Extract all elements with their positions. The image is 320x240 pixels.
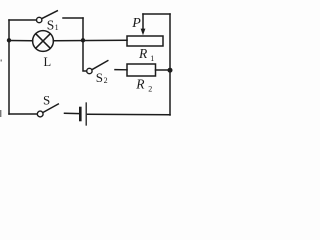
lamp L cross — [36, 34, 51, 49]
label S1 — [47, 18, 59, 33]
node junction dot (83,40) — [81, 38, 85, 42]
switch S blade — [43, 104, 58, 113]
wire top-left horizontal (S1 branch) — [9, 19, 36, 21]
battery positive plate (long thin) — [85, 103, 87, 125]
svg-text:2: 2 — [148, 85, 152, 94]
resistor R2 body — [127, 64, 156, 76]
battery negative plate (short thick) — [79, 108, 82, 120]
svg-text:P: P — [131, 16, 141, 31]
wire S1 right stub — [63, 17, 83, 19]
svg-text:1: 1 — [55, 23, 59, 32]
switch S2 blade — [92, 61, 108, 70]
switch S pivot circle — [37, 111, 43, 117]
rheostat R1 body — [127, 36, 163, 46]
svg-text:2: 2 — [104, 76, 108, 85]
switch S2 pivot circle — [87, 68, 92, 73]
wire left vertical — [8, 20, 10, 114]
wire bottom right — [88, 113, 171, 116]
wire lamp row left — [9, 40, 33, 42]
label R1 — [138, 46, 154, 63]
node junction dot left (9,40) — [7, 38, 11, 42]
svg-text:1: 1 — [150, 54, 154, 63]
wire R2 to right vertical — [156, 69, 171, 71]
svg-text:S: S — [47, 18, 55, 33]
switch S1 blade — [42, 11, 58, 19]
wire lamp row right to R1 — [53, 39, 127, 42]
svg-text:S: S — [43, 92, 50, 107]
svg-text:R: R — [138, 46, 148, 61]
label R2 — [135, 77, 152, 94]
wire right vertical — [169, 14, 171, 115]
slider P arrow — [142, 14, 144, 30]
wire S2 branch down from node — [83, 40, 87, 71]
wire slider jumper to right — [143, 13, 170, 15]
svg-text:R: R — [135, 77, 145, 92]
wire S2 right stub — [115, 69, 127, 71]
wire S1 branch down — [82, 18, 84, 40]
wire bottom left — [9, 113, 37, 115]
wire battery left stub — [65, 112, 80, 114]
svg-text:L: L — [44, 55, 52, 69]
label S2 — [96, 70, 108, 85]
scan artifact left edge — [0, 60, 2, 118]
lamp L circle — [33, 31, 54, 52]
svg-text:S: S — [96, 70, 103, 85]
node junction dot (170,70) — [168, 68, 173, 73]
switch S1 pivot circle — [37, 17, 42, 22]
